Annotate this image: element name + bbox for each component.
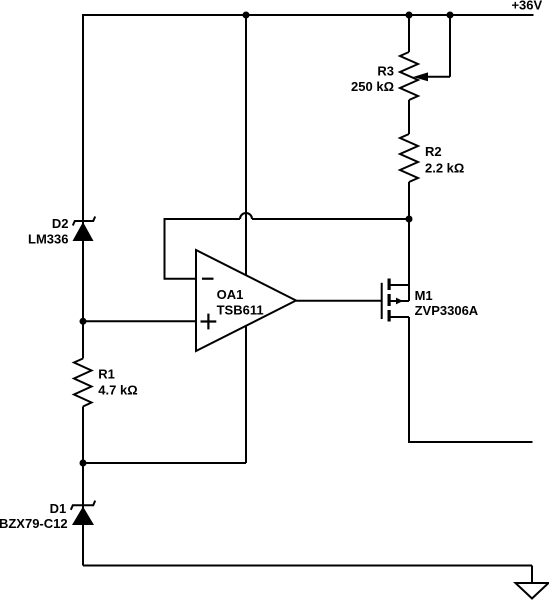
svg-text:ZVP3306A: ZVP3306A — [415, 303, 479, 318]
svg-text:D1: D1 — [50, 501, 67, 516]
svg-text:R3: R3 — [377, 64, 394, 79]
svg-text:M1: M1 — [415, 288, 433, 303]
svg-text:R2: R2 — [425, 144, 442, 159]
svg-text:2.2 kΩ: 2.2 kΩ — [425, 161, 464, 176]
svg-text:R1: R1 — [98, 366, 115, 381]
svg-text:D2: D2 — [52, 216, 69, 231]
svg-text:LM336: LM336 — [28, 231, 68, 246]
svg-text:+36V: +36V — [511, 0, 542, 12]
svg-text:BZX79-C12: BZX79-C12 — [0, 516, 68, 531]
svg-text:4.7 kΩ: 4.7 kΩ — [98, 383, 137, 398]
svg-text:250 kΩ: 250 kΩ — [351, 79, 394, 94]
svg-text:OA1: OA1 — [217, 287, 244, 302]
svg-text:TSB611: TSB611 — [217, 303, 264, 318]
